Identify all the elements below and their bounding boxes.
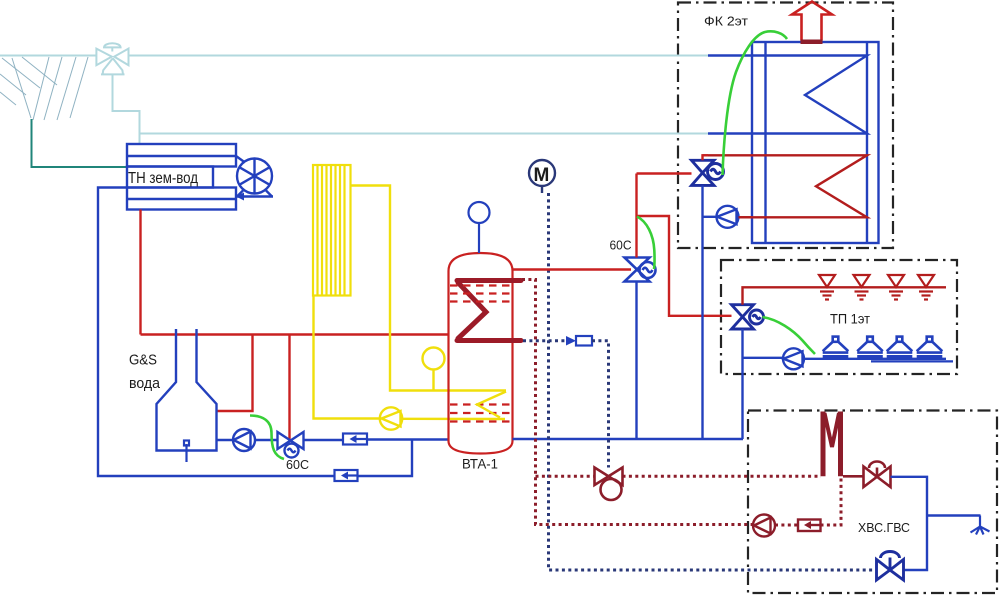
wire: solar pump to tank (yellow)	[402, 418, 505, 421]
wire: DHW hot dotted (dark red) from tank top coil	[522, 280, 753, 525]
wire: red supply horizontal to buffer tank	[141, 333, 449, 335]
motor M symbol above DHW line	[529, 160, 555, 193]
filter on recirculation line (dark red)	[798, 520, 821, 532]
thermostatic mixing valve (dark red)	[595, 468, 623, 501]
wire: valve drop line (pale) to heat pump	[113, 74, 140, 144]
valve 60C near tank	[625, 258, 656, 282]
wire: red branch to 60C mixing valve (G&S)	[288, 335, 290, 441]
solar collector (yellow hatched panel)	[313, 165, 351, 296]
wire: brine main line (pale) left of valve	[0, 55, 97, 57]
wire: blue tap branch	[927, 514, 981, 516]
arrow base bar	[801, 40, 823, 45]
zone box ФК 2эт (dash-dot border)	[678, 3, 893, 249]
wire: blue return from heat pump to bottom line	[98, 188, 335, 477]
wire: red from tank to 60C valve (heating supply)	[513, 268, 632, 270]
heat pump ТН зем-вод (plate stack)	[127, 144, 236, 210]
svg-text:G&S: G&S	[129, 353, 157, 369]
wire: blue return tank right side to consumers	[513, 438, 744, 440]
wire: red supply from heat pump down	[139, 210, 141, 335]
wire: pump to 60C valve	[255, 439, 278, 441]
wire: dotted navy check valve to mixing valve riser	[592, 341, 609, 468]
wire: blue stub to fancoil pump	[703, 216, 718, 218]
wire: red valve top port to heating coil	[703, 155, 709, 160]
wire: brine second line (pale) to fancoil area	[140, 133, 709, 135]
wire: collector return (yellow) down to pump	[314, 296, 381, 419]
check valve on DHW line	[566, 336, 592, 346]
wire: dotted recirculation from pump to filter	[775, 524, 798, 527]
wire: blue TP loop line to pump	[743, 357, 784, 359]
wire: blue TP distribution offset line	[871, 360, 953, 362]
fancoil heating coil (red chevron)	[703, 155, 868, 217]
wire: collector supply (yellow) to tank	[351, 186, 507, 391]
svg-text:вода: вода	[129, 376, 161, 392]
valve 60C (G&S loop)	[278, 432, 304, 458]
wire: red branch to G&S vessel	[217, 335, 253, 412]
wire: red to fancoil valve	[637, 172, 692, 174]
TP supply outlets (red triangles with ground marks)	[819, 275, 934, 300]
wire: dotted recirculation riser to heater	[821, 478, 842, 525]
wire: blue TP distribution line	[804, 358, 946, 360]
DHW electric heater (dark red M)	[823, 412, 841, 477]
buffer tank ВТА-1 (red vessel outline)	[449, 253, 513, 454]
valve TP loop (blue, with actuator)	[732, 305, 764, 329]
G&S water vessel	[157, 329, 217, 451]
svg-text:60С: 60С	[286, 457, 309, 472]
DHW shutoff valve (dark red with handle)	[864, 462, 891, 488]
wire: red TP supply manifold	[743, 287, 947, 304]
ground hatch (soil above borehole)	[0, 57, 88, 120]
internal HP coil (thick dark red sigma)	[457, 281, 521, 341]
fancoil cooling coil (blue chevron)	[708, 56, 867, 134]
tank stratification dashes (lower)	[450, 405, 511, 422]
pump solar (yellow)	[380, 407, 402, 429]
thermometer on solar supply (yellow circle)	[423, 348, 445, 391]
arrow into condenser	[236, 193, 244, 201]
svg-text:60С: 60С	[610, 238, 632, 253]
TP floor loops (blue bells)	[823, 337, 943, 357]
wire: valve to filter to tank (blue)	[304, 439, 344, 441]
filter on tank feed line	[343, 434, 367, 445]
internal solar coil (yellow zigzag)	[477, 392, 506, 418]
wire: bottom blue line to riser	[358, 440, 413, 477]
wire: red branch to TP loop	[637, 216, 732, 316]
wire: red riser feeding 60C valve and branch	[635, 174, 637, 258]
wire: dotted dark red mixed water to HVS box	[623, 475, 822, 478]
filter on bottom blue line	[335, 470, 358, 481]
wire: red from pump to heating coil return	[739, 216, 753, 218]
wire: filter to tank bottom left (blue)	[367, 438, 449, 440]
wire: blue drop from fancoil valve to return	[701, 185, 703, 439]
fan of heat pump	[236, 156, 273, 197]
svg-text:ФК 2эт: ФК 2эт	[704, 15, 748, 29]
wire: dark red heater to DHW valve	[843, 475, 864, 478]
pump G&S	[233, 429, 255, 451]
svg-text:ХВС.ГВС: ХВС.ГВС	[858, 520, 910, 535]
wire: blue from vessel to pump	[217, 439, 234, 441]
pump TP loop	[783, 348, 804, 369]
fancoil valve (blue, with actuator)	[692, 160, 724, 185]
pressure gauge on tank top	[469, 202, 490, 253]
fancoil radiator body (blue)	[752, 42, 879, 243]
sensor capillary (green) fancoil	[723, 31, 788, 175]
cold water shutoff valve (blue with handle)	[877, 552, 904, 581]
wire: dotted navy from tank bottom coil to check valve	[523, 339, 566, 342]
sensor capillary (green) 60C valve	[637, 217, 655, 270]
tank stratification dashes (upper)	[450, 286, 511, 302]
wire: blue pipe from valve to riser and tap branch	[891, 477, 928, 570]
wire: blue TP return drop	[741, 329, 743, 439]
wire: dotted dark red branch to mixing valve	[536, 475, 595, 478]
wire: blue drop from 60C valve to return line	[635, 282, 637, 440]
sensor capillary (green) G&S	[250, 416, 284, 460]
svg-text:ВТА-1: ВТА-1	[462, 457, 498, 472]
4-way source valve (pale)	[96, 43, 128, 74]
svg-text:М: М	[534, 165, 550, 186]
svg-text:ТН зем-вод: ТН зем-вод	[128, 170, 199, 187]
zone box ХВС.ГВС (dash-dot border)	[748, 411, 997, 594]
pump fancoil	[717, 206, 739, 228]
sensor capillary (green) TP	[763, 317, 816, 354]
wire: brine main line (pale) valve to fancoil area	[129, 55, 708, 57]
zone box ТП 1эт (dash-dot border)	[721, 260, 957, 374]
wire: DHW cold dotted (navy) from M down and to HVS box	[549, 193, 877, 570]
wire: borehole pipe (teal)	[32, 119, 127, 167]
tap symbol	[971, 516, 990, 535]
DHW recirculation pump (dark red)	[753, 515, 775, 537]
svg-text:ТП 1эт: ТП 1эт	[830, 311, 871, 327]
air flow arrow (red) on fancoil	[792, 2, 832, 41]
vessel drain probe	[184, 441, 189, 463]
